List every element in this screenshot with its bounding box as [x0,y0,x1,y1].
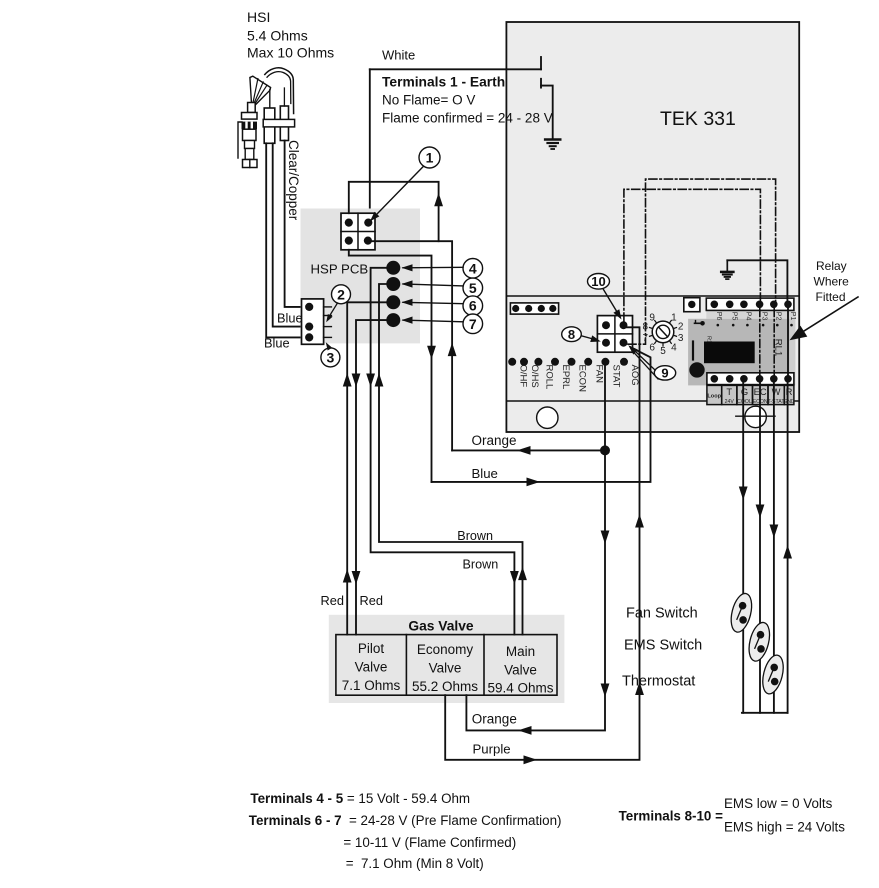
svg-text:AOG: AOG [629,365,640,386]
svg-text:7: 7 [469,316,477,332]
svg-text:1: 1 [671,312,677,323]
svg-text:= 7.1 Ohm (Min 8 Volt): = 7.1 Ohm (Min 8 Volt) [346,856,484,871]
svg-text:P2: P2 [775,312,782,321]
svg-text:P3: P3 [760,312,767,321]
svg-text:1: 1 [426,150,434,166]
callout circle 8 [562,327,582,342]
arrow up orange riser [448,343,457,357]
flame switch contact lower [540,79,542,88]
svg-text:3: 3 [678,333,684,344]
relay P-label band [706,310,795,318]
wire orange horizontal [452,449,605,451]
svg-text:W: W [772,386,781,397]
svg-text:EPRL: EPRL [560,365,571,390]
svg-text:8: 8 [568,327,575,342]
TEK pin row labels [508,358,516,366]
gas valve boxes [336,635,557,696]
callout circle 9 [654,366,675,380]
callout circle 1 [419,147,440,168]
svg-text:Orange: Orange [472,433,517,448]
wire terminal4 brown [371,268,515,635]
wire orange from connector [370,241,452,450]
wire igniter blue mid [273,143,302,326]
svg-text:Terminals 4 - 5 = 15 Volt - 59: Terminals 4 - 5 = 15 Volt - 59.4 Ohm [250,791,470,806]
aux square connector [684,298,700,312]
svg-text:2: 2 [678,322,684,333]
arrow down stat 1 [601,531,610,545]
svg-text:Red: Red [360,593,383,608]
svg-text:T: T [726,386,732,397]
arrow down G [739,487,748,501]
callout circle 10 [588,274,610,290]
svg-text:ROLL: ROLL [544,365,555,390]
P terminal dots [711,301,719,309]
wire terminal6 red [347,302,386,634]
arrow down W [770,525,779,539]
svg-text:7: 7 [643,333,649,344]
arrow up t6 upper [343,373,352,387]
TEK board divider lower [506,400,799,402]
arrow left orange lower [518,726,532,735]
HSP igniter connector 2x2 [341,213,375,250]
callout circle 2 [332,285,351,304]
callout 4 pointer [403,266,463,269]
wire R return [787,383,789,713]
svg-text:Pilot: Pilot [358,641,385,656]
svg-text:O/HF: O/HF [517,365,528,388]
relay body RL1 [704,342,755,364]
dashdot P2 to W [773,309,775,376]
relay board left bar [692,342,694,360]
flame switch contact upper [540,57,542,69]
svg-text:G: G [741,386,748,397]
arrow up t5 valve [518,567,527,581]
wire terminal1 loop [349,182,439,241]
svg-text:RL1: RL1 [773,339,784,356]
svg-text:P4: P4 [745,312,752,321]
svg-text:Fan Switch: Fan Switch [626,606,698,622]
svg-text:Brown: Brown [457,529,493,543]
HSP PCB board [301,209,421,344]
wire terminal5 brown [379,284,523,635]
callout 1 pointer [372,166,424,219]
arrow up on loop wire [434,193,443,207]
earth ground symbol board [726,260,728,271]
svg-text:4: 4 [469,260,477,276]
relay pointer arrow [800,297,858,334]
HSP terminal 7 [386,313,400,327]
thermostat terminal strip box [707,373,794,385]
relay key mark [700,321,705,326]
svg-text:Clear/Copper: Clear/Copper [286,140,301,221]
TEK connector terminals 8 9 10 [597,316,632,353]
TEK aux connector 4-pin [510,303,558,314]
relay board pin dots [717,324,720,327]
svg-text:TEK 331: TEK 331 [660,108,736,130]
svg-text:Economy: Economy [417,642,474,657]
wire W to thermostat [773,383,775,713]
svg-text:EMS high = 24 Volts: EMS high = 24 Volts [724,820,845,835]
svg-text:Orange: Orange [472,712,517,727]
svg-text:P1: P1 [789,312,796,321]
earth ground symbol top [545,138,560,141]
TEK board divider upper [506,295,799,297]
wire white vertical to terminal 1 [369,69,371,222]
svg-text:4: 4 [671,342,677,353]
wire igniter clear/copper [285,141,302,307]
wire blue horizontal [432,345,651,482]
callout circle 3 [321,348,340,367]
grommet crosshair [736,415,775,417]
svg-text:COOL: COOL [737,399,752,405]
svg-text:8: 8 [643,322,649,333]
arrow down t4 valve [510,571,519,585]
wire terminal7 red [356,320,387,634]
TEK 331 enclosure [506,22,799,432]
svg-text:P6: P6 [715,312,722,321]
wire switch to earth [541,86,553,139]
thermostat switch [759,653,787,696]
callout circle 7 [463,314,483,334]
arrow left orange [517,446,531,455]
svg-text:9: 9 [649,312,655,323]
svg-text:Terminals 1 - Earth: Terminals 1 - Earth [382,75,505,90]
svg-text:5: 5 [660,346,666,357]
svg-text:Max 10 Ohms: Max 10 Ohms [247,45,334,61]
svg-text:Gas Valve: Gas Valve [408,619,474,634]
relay board capacitor [689,362,704,377]
svg-text:STAT: STAT [611,365,622,388]
dashdot P3 to EC [759,309,761,376]
arrow right blue [527,478,541,487]
svg-text:EMS Switch: EMS Switch [624,638,702,654]
arrow up purple 1 [635,514,644,528]
svg-text:Blue: Blue [264,336,290,351]
svg-text:9: 9 [661,366,668,381]
arrow down EC [756,505,765,519]
terminals 1 note background [371,71,505,127]
arrow up t5 upper [375,373,384,387]
callout 9 pointer [631,347,656,370]
arrow down t7 valve [352,571,361,585]
arrow up purple 2 [635,682,644,696]
arrow down t4 upper [366,374,375,388]
HSI igniter [250,76,271,108]
arrow down t7 upper [352,374,361,388]
callout circle 5 [463,278,483,298]
svg-text:6: 6 [469,298,477,314]
svg-text:ECON: ECON [577,365,588,393]
svg-text:HSI: HSI [247,9,270,25]
wire EC to EMS switch [759,383,761,713]
grommet hole right [745,406,767,428]
svg-text:Purple: Purple [473,742,511,757]
HSP terminal 4 [386,261,400,275]
svg-text:Flame confirmed = 24 - 28 V: Flame confirmed = 24 - 28 V [382,110,553,125]
wire earth to P1 [727,260,787,301]
arrow down stat 2 [601,684,610,698]
arrow down blue riser [427,346,436,360]
svg-text:Valve: Valve [355,660,388,675]
P terminal strip box [706,298,794,310]
thermostat terminal dots [711,375,719,383]
svg-text:= 10-11 V (Flame Confirmed): = 10-11 V (Flame Confirmed) [343,835,516,850]
svg-text:Blue: Blue [472,466,498,481]
terminal label boxes [707,385,794,404]
svg-text:55.2 Ohms: 55.2 Ohms [412,679,478,694]
wire blue from connector [349,250,432,482]
callout circle 6 [463,296,483,316]
wire G to fan switch [742,383,744,713]
dashdot net terminal9 to P2 [628,179,776,344]
svg-text:White: White [382,48,415,63]
HSP flame connector 3-pin [302,299,324,344]
svg-text:59.4 Ohms: 59.4 Ohms [487,680,553,695]
svg-text:Red: Red [321,593,344,608]
svg-text:10: 10 [591,274,605,289]
grommet hole left [537,407,558,428]
callout 5 pointer [403,284,463,286]
svg-text:24V: 24V [725,399,735,405]
wire igniter blue left [266,143,301,337]
arrow up t6 valve [343,569,352,583]
wire stat orange [466,366,605,731]
svg-text:Fitted: Fitted [816,290,846,304]
HSP terminal 6 [386,295,400,309]
wire P1 to R [787,309,789,376]
svg-text:7.1 Ohms: 7.1 Ohms [342,678,401,693]
svg-text:Where: Where [814,275,850,289]
HSP terminal 5 [386,277,400,291]
svg-text:5: 5 [469,280,477,296]
svg-text:R: R [786,386,793,397]
svg-text:Relay: Relay [816,259,847,273]
gas valve panel [329,615,565,703]
EMS switch [745,620,773,663]
svg-text:GND: GND [783,399,795,405]
svg-text:Terminals 8-10 =: Terminals 8-10 = [619,809,724,824]
wire white horizontal [370,68,541,70]
svg-text:EMS low = 0 Volts: EMS low = 0 Volts [724,796,833,811]
callout 10 pointer [603,289,620,316]
svg-text:6: 6 [649,342,655,353]
svg-text:2: 2 [337,286,345,302]
svg-text:P5: P5 [731,312,738,321]
svg-text:Valve: Valve [429,661,462,676]
svg-text:O/HS: O/HS [529,365,540,388]
callout 7 pointer [403,320,463,322]
svg-text:3: 3 [327,349,335,365]
svg-text:Thermostat: Thermostat [622,674,695,690]
svg-text:No Flame= O V: No Flame= O V [382,93,475,108]
svg-text:Terminals 6 - 7 = 24-28 V (Pr: Terminals 6 - 7 = 24-28 V (Pre Flame Con… [249,813,562,828]
dashdot net terminal10 to P3 [624,189,761,321]
svg-text:Brown: Brown [463,558,499,572]
relay board [688,319,789,386]
switch common rail [742,712,788,714]
svg-text:Loop: Loop [707,394,721,400]
rotary address switch [652,321,674,343]
callout 8 pointer [581,336,597,340]
callout 2 pointer [329,303,338,318]
callout 6 pointer [403,302,463,303]
svg-text:5.4 Ohms: 5.4 Ohms [247,28,308,44]
callout circle 4 [463,259,483,279]
arrow up R [783,545,792,559]
junction dot orange/stat [600,445,610,455]
wire purple terminal10 [445,327,639,760]
svg-text:Blue: Blue [277,311,303,326]
svg-text:Main: Main [506,644,535,659]
fan switch [728,591,756,634]
svg-text:HSP PCB: HSP PCB [311,262,369,277]
arrow right purple [524,755,538,764]
svg-text:Valve: Valve [504,663,537,678]
callout 3 pointer [327,345,329,348]
svg-text:FAN: FAN [593,365,604,384]
relay board light strip [789,319,795,386]
